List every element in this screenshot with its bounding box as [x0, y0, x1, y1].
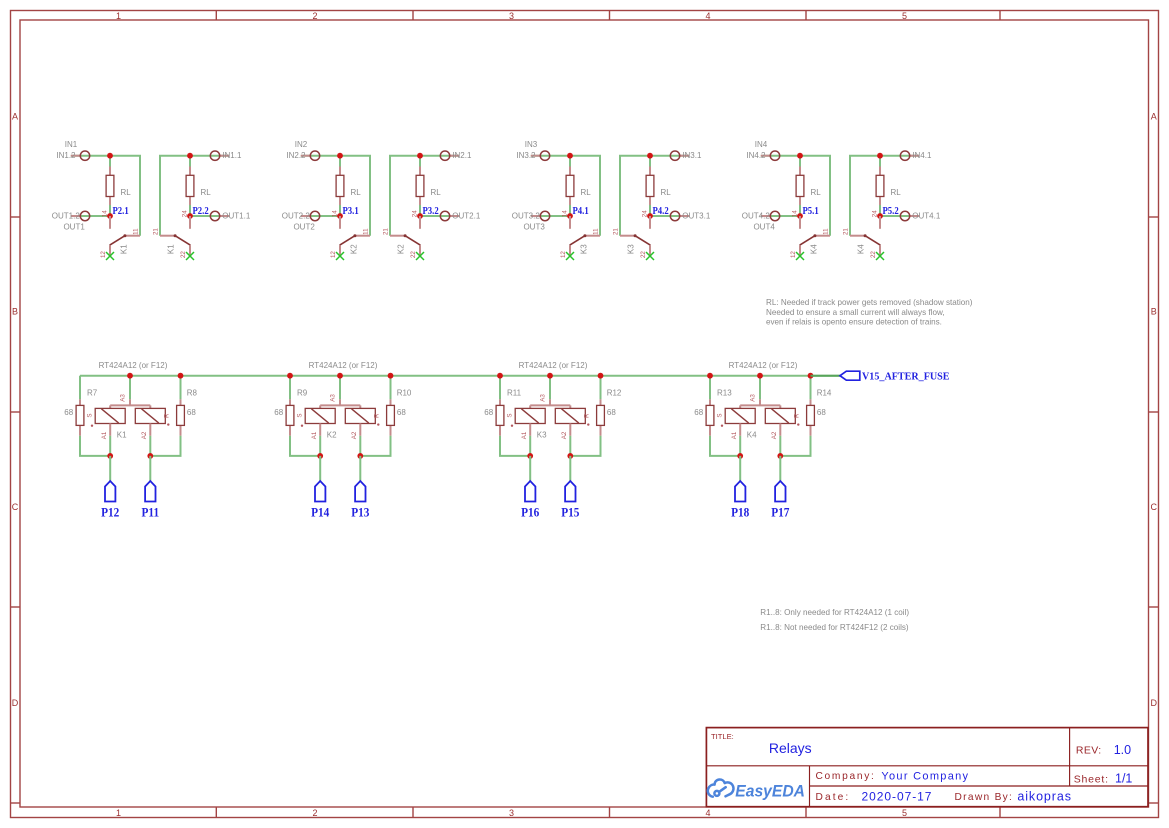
svg-text:R14: R14 — [817, 389, 832, 398]
svg-text:A3: A3 — [540, 394, 547, 402]
connector P4.1 pin 2 (circle OUT3.2) — [531, 215, 541, 217]
svg-text:OUT2.2: OUT2.2 — [282, 212, 311, 221]
relay coil K2 — [339, 399, 341, 405]
svg-text:RL: RL — [581, 188, 592, 197]
svg-text:P3.1: P3.1 — [343, 205, 359, 217]
svg-text:24: 24 — [871, 210, 878, 217]
svg-text:R: R — [374, 413, 381, 418]
wire R8 to junction A2 — [150, 436, 180, 456]
resistor R8 — [180, 399, 182, 405]
junction OUT2.1 — [417, 213, 423, 219]
svg-text:OUT1: OUT1 — [63, 222, 85, 231]
junction bus at R8 — [178, 373, 184, 379]
svg-text:1/1: 1/1 — [1115, 772, 1132, 786]
junction IN3.1 — [647, 153, 653, 159]
resistor RL (group 4b) — [879, 167, 881, 176]
svg-text:K2: K2 — [349, 244, 358, 254]
svg-text:12: 12 — [790, 251, 797, 258]
wire OUT3 horizontal (pin P4.2.2 to junction) — [650, 215, 689, 217]
wire bus to net flag V15_AFTER_FUSE — [811, 375, 841, 377]
svg-text:RL: RL — [431, 188, 442, 197]
wire junction to port P16 — [529, 456, 531, 481]
svg-text:K4: K4 — [857, 244, 866, 254]
wire IN3 to relay contact rail — [570, 156, 600, 236]
wire resistor RL bottom segment — [339, 205, 341, 216]
junction OUT4.1 — [877, 213, 883, 219]
connector P3.1 pin 1 (circle IN2.2) — [301, 155, 311, 157]
relay contact K2 pin 24 stub — [419, 216, 421, 229]
relay contact K4 pin 24 stub — [879, 216, 881, 229]
port flag P11 — [145, 481, 155, 502]
svg-text:Needed to ensure a small curre: Needed to ensure a small current will al… — [766, 308, 945, 317]
junction P15 A2 — [569, 436, 571, 456]
no-connect X on K4 pin 22 — [876, 252, 884, 260]
svg-text:2: 2 — [312, 808, 317, 818]
junction P12 A1 — [109, 436, 111, 456]
svg-text:C: C — [1151, 502, 1158, 512]
svg-text:A: A — [1151, 112, 1157, 122]
connector P2.2 pin 1 (circle IN1.1) — [220, 155, 230, 157]
port flag P13 — [355, 481, 365, 502]
no-connect X on K1 pin 22 — [186, 252, 194, 260]
svg-text:RL: RL — [811, 188, 822, 197]
svg-text:21: 21 — [153, 228, 160, 235]
svg-text:11: 11 — [133, 228, 140, 235]
relay coil K1 — [129, 399, 131, 405]
wire junction to port P13 — [359, 456, 361, 481]
wire OUT4 horizontal (pin P5.2.2 to junction) — [880, 215, 919, 217]
wire junction to port P12 — [109, 456, 111, 481]
svg-text:68: 68 — [607, 408, 616, 417]
junction bus at coil K1 stem — [127, 373, 133, 379]
no-connect X on K3 pin 12 — [566, 252, 574, 260]
svg-text:D: D — [12, 698, 19, 708]
relay contact K4 (right) — [850, 235, 865, 237]
svg-text:A1: A1 — [101, 431, 108, 439]
svg-text:Date:: Date: — [816, 792, 851, 803]
svg-text:OUT4.2: OUT4.2 — [742, 212, 771, 221]
wire right rail to resistor R12 — [600, 376, 602, 400]
wire IN4 horizontal (pin P5.1.1 to junction) — [761, 155, 800, 157]
wire IN2 horizontal (pin P3.1.1 to junction) — [301, 155, 340, 157]
svg-text:IN1: IN1 — [65, 140, 78, 149]
resistor RL (group 3b) — [649, 167, 651, 176]
wire IN1 to relay contact rail — [160, 156, 190, 236]
resistor R10 — [390, 399, 392, 405]
svg-text:A3: A3 — [330, 394, 337, 402]
wire bus to relay coil K4 pin A3 — [759, 376, 761, 400]
svg-text:K4: K4 — [809, 244, 818, 254]
no-connect X on K4 pin 12 — [796, 252, 804, 260]
svg-text:RT424A12 (or F12): RT424A12 (or F12) — [729, 361, 798, 370]
junction OUT3.2 — [567, 213, 573, 219]
svg-text:1: 1 — [116, 11, 121, 21]
relay contact K4 pin 14 stub — [799, 216, 801, 229]
no-connect X on K1 pin 12 — [106, 252, 114, 260]
wire R13 to junction A1 — [710, 436, 740, 456]
svg-text:K1: K1 — [119, 244, 128, 254]
svg-text:R9: R9 — [297, 389, 308, 398]
svg-text:24: 24 — [181, 210, 188, 217]
wire junction to port P11 — [149, 456, 151, 481]
svg-text:22: 22 — [870, 251, 877, 258]
EasyEDA logo cloud — [708, 779, 734, 796]
svg-text:K1: K1 — [167, 244, 176, 254]
connector P5.1 pin 2 (circle OUT4.2) — [761, 215, 771, 217]
svg-text:A2: A2 — [141, 431, 148, 439]
wire resistor RL top segment — [189, 156, 191, 167]
net flag V15_AFTER_FUSE — [840, 371, 860, 380]
wire IN1 to relay contact rail — [110, 156, 140, 236]
junction OUT1.2 — [107, 213, 113, 219]
wire OUT1 horizontal (pin P2.1.2 to junction) — [71, 215, 110, 217]
junction bus at coil K3 stem — [547, 373, 553, 379]
wire IN1 horizontal (pin P2.2.1 to junction) — [190, 155, 229, 157]
svg-text:OUT1.1: OUT1.1 — [222, 212, 251, 221]
svg-text:R13: R13 — [717, 389, 732, 398]
svg-text:68: 68 — [694, 408, 703, 417]
wire resistor RL top segment — [339, 156, 341, 167]
wire R11 to junction A1 — [500, 436, 530, 456]
svg-text:RL: RL — [351, 188, 362, 197]
svg-text:OUT4: OUT4 — [753, 222, 775, 231]
wire OUT4 horizontal (pin P5.1.2 to junction) — [761, 215, 800, 217]
svg-text:14: 14 — [791, 210, 798, 217]
wire IN2 to relay contact rail — [390, 156, 420, 236]
svg-text:12: 12 — [100, 251, 107, 258]
wire left rail to resistor R9 — [289, 376, 291, 400]
wire resistor RL top segment — [649, 156, 651, 167]
svg-text:even if relais is opento ensur: even if relais is opento ensure detectio… — [766, 317, 942, 326]
relay contact K2 (right) — [390, 235, 405, 237]
svg-text:OUT3.2: OUT3.2 — [512, 212, 541, 221]
wire IN4 to relay contact rail — [850, 156, 880, 236]
svg-text:12: 12 — [560, 251, 567, 258]
svg-text:4: 4 — [705, 11, 710, 21]
connector P3.2 pin 2 (circle OUT2.1) — [450, 215, 460, 217]
resistor RL (group 4a) — [799, 167, 801, 176]
wire left rail to resistor R7 — [79, 376, 81, 400]
svg-text:22: 22 — [410, 251, 417, 258]
svg-text:21: 21 — [843, 228, 850, 235]
svg-text:K1: K1 — [117, 430, 127, 439]
svg-text:21: 21 — [383, 228, 390, 235]
svg-text:K3: K3 — [627, 244, 636, 254]
svg-text:2020-07-17: 2020-07-17 — [862, 789, 933, 803]
svg-text:R: R — [584, 413, 591, 418]
no-connect X on K3 pin 22 — [646, 252, 654, 260]
wire R14 to junction A2 — [780, 436, 810, 456]
wire IN2 horizontal (pin P3.2.1 to junction) — [420, 155, 459, 157]
wire IN3 to relay contact rail — [620, 156, 650, 236]
resistor R7 — [79, 399, 81, 405]
svg-text:P5.1: P5.1 — [803, 205, 819, 217]
wire OUT3 horizontal (pin P4.1.2 to junction) — [531, 215, 570, 217]
svg-text:R8: R8 — [187, 389, 198, 398]
relay coil K4 — [759, 399, 761, 405]
svg-text:P4.2: P4.2 — [653, 205, 669, 217]
wire V15_AFTER_FUSE bus — [80, 375, 840, 377]
svg-text:RT424A12 (or F12): RT424A12 (or F12) — [309, 361, 378, 370]
junction P18 A1 — [739, 436, 741, 456]
svg-text:A1: A1 — [521, 431, 528, 439]
svg-text:IN4: IN4 — [755, 140, 768, 149]
svg-text:IN2: IN2 — [295, 140, 308, 149]
wire resistor RL top segment — [109, 156, 111, 167]
wire R9 to junction A1 — [290, 436, 320, 456]
svg-text:P3.2: P3.2 — [423, 205, 439, 217]
svg-text:A: A — [12, 112, 18, 122]
svg-text:68: 68 — [484, 408, 493, 417]
port flag P17 — [775, 481, 785, 502]
resistor RL (group 2a) — [339, 167, 341, 176]
wire junction to port P15 — [569, 456, 571, 481]
svg-text:P13: P13 — [351, 505, 369, 520]
svg-text:5: 5 — [902, 808, 907, 818]
wire R12 to junction A2 — [570, 436, 600, 456]
connector P5.1 pin 1 (circle IN4.2) — [761, 155, 771, 157]
wire IN3 horizontal (pin P4.2.1 to junction) — [650, 155, 689, 157]
junction bus at R12 — [598, 373, 604, 379]
wire bus to relay coil K2 pin A3 — [339, 376, 341, 400]
svg-text:22: 22 — [640, 251, 647, 258]
junction bus at R13 — [707, 373, 713, 379]
title block — [706, 728, 1148, 807]
junction IN1.1 — [187, 153, 193, 159]
no-connect X on K2 pin 22 — [416, 252, 424, 260]
junction P14 A1 — [319, 436, 321, 456]
svg-text:IN4.1: IN4.1 — [912, 151, 932, 160]
wire left rail to resistor R13 — [709, 376, 711, 400]
note: R1..8 explanation — [760, 608, 909, 632]
svg-text:Your Company: Your Company — [881, 770, 969, 782]
svg-text:P11: P11 — [142, 505, 160, 520]
junction OUT4.2 — [797, 213, 803, 219]
svg-text:K4: K4 — [747, 430, 757, 439]
relay coil K3 — [549, 399, 551, 405]
wire junction to port P17 — [779, 456, 781, 481]
svg-text:1: 1 — [116, 808, 121, 818]
svg-text:V15_AFTER_FUSE: V15_AFTER_FUSE — [862, 371, 950, 382]
svg-text:D: D — [1151, 698, 1158, 708]
svg-text:68: 68 — [817, 408, 826, 417]
junction IN4.1 — [877, 153, 883, 159]
resistor RL (group 1a) — [109, 167, 111, 176]
connector P2.2 pin 2 (circle OUT1.1) — [220, 215, 230, 217]
svg-text:R1..8: Only needed for RT424A1: R1..8: Only needed for RT424A12 (1 coil) — [760, 608, 909, 617]
connector P4.2 pin 2 (circle OUT3.1) — [680, 215, 690, 217]
svg-text:P16: P16 — [521, 505, 539, 520]
svg-text:5: 5 — [902, 11, 907, 21]
svg-text:1.0: 1.0 — [1114, 743, 1131, 757]
svg-text:2: 2 — [312, 11, 317, 21]
wire junction to port P14 — [319, 456, 321, 481]
wire resistor RL top segment — [879, 156, 881, 167]
svg-text:C: C — [12, 502, 19, 512]
relay contact K2 pin 14 stub — [339, 216, 341, 229]
wire junction to port P18 — [739, 456, 741, 481]
svg-text:IN3.2: IN3.2 — [516, 151, 536, 160]
relay contact K4 (left) — [815, 235, 830, 237]
svg-text:14: 14 — [561, 210, 568, 217]
junction bus at R11 — [497, 373, 503, 379]
svg-text:K2: K2 — [397, 244, 406, 254]
svg-text:12: 12 — [330, 251, 337, 258]
wire left rail to resistor R11 — [499, 376, 501, 400]
svg-text:REV:: REV: — [1076, 745, 1102, 757]
svg-text:A3: A3 — [120, 394, 127, 402]
svg-text:K3: K3 — [537, 430, 547, 439]
svg-text:68: 68 — [274, 408, 283, 417]
wire resistor RL bottom segment — [879, 205, 881, 216]
svg-text:3: 3 — [509, 808, 514, 818]
wire resistor RL bottom segment — [569, 205, 571, 216]
connector P4.1 pin 1 (circle IN3.2) — [531, 155, 541, 157]
svg-text:4: 4 — [705, 808, 710, 818]
svg-text:22: 22 — [180, 251, 187, 258]
connector P2.1 pin 1 (circle IN1.2) — [71, 155, 81, 157]
svg-text:Company:: Company: — [816, 771, 876, 782]
svg-text:P2.2: P2.2 — [193, 205, 209, 217]
svg-text:OUT2: OUT2 — [293, 222, 315, 231]
svg-text:IN4.2: IN4.2 — [746, 151, 766, 160]
junction bus at R14 — [808, 373, 814, 379]
svg-text:P14: P14 — [311, 505, 329, 520]
svg-text:P5.2: P5.2 — [883, 205, 899, 217]
wire OUT1 horizontal (pin P2.2.2 to junction) — [190, 215, 229, 217]
svg-text:OUT4.1: OUT4.1 — [912, 212, 941, 221]
junction IN3.2 — [567, 153, 573, 159]
svg-text:IN2.2: IN2.2 — [286, 151, 306, 160]
svg-text:24: 24 — [641, 210, 648, 217]
junction bus at coil K4 stem — [757, 373, 763, 379]
svg-text:11: 11 — [593, 228, 600, 235]
svg-text:IN3: IN3 — [525, 140, 538, 149]
wire resistor RL bottom segment — [189, 205, 191, 216]
junction P17 A2 — [779, 436, 781, 456]
wire right rail to resistor R14 — [810, 376, 812, 400]
relay contact K1 (left) — [125, 235, 140, 237]
svg-text:R: R — [794, 413, 801, 418]
junction P16 A1 — [529, 436, 531, 456]
svg-text:RL: RL — [201, 188, 212, 197]
relay contact K3 pin 24 stub — [649, 216, 651, 229]
svg-text:P12: P12 — [101, 505, 119, 520]
wire IN2 to relay contact rail — [340, 156, 370, 236]
svg-text:OUT3.1: OUT3.1 — [682, 212, 711, 221]
svg-text:Sheet:: Sheet: — [1074, 773, 1109, 785]
wire resistor RL bottom segment — [109, 205, 111, 216]
junction IN2.1 — [417, 153, 423, 159]
wire right rail to resistor R10 — [390, 376, 392, 400]
svg-text:S: S — [717, 413, 724, 417]
svg-text:P17: P17 — [771, 505, 789, 520]
svg-text:R12: R12 — [607, 389, 622, 398]
note: RL explanation — [766, 298, 973, 326]
svg-text:IN1.1: IN1.1 — [222, 151, 242, 160]
svg-text:14: 14 — [101, 210, 108, 217]
svg-text:A2: A2 — [771, 431, 778, 439]
resistor RL (group 3a) — [569, 167, 571, 176]
svg-text:EasyEDA: EasyEDA — [735, 782, 805, 800]
wire R7 to junction A1 — [80, 436, 110, 456]
junction OUT1.1 — [187, 213, 193, 219]
junction bus at coil K2 stem — [337, 373, 343, 379]
relay contact K1 (right) — [160, 235, 175, 237]
svg-text:RL: RL — [121, 188, 132, 197]
relay contact K2 (left) — [355, 235, 370, 237]
wire OUT2 horizontal (pin P3.2.2 to junction) — [420, 215, 459, 217]
svg-text:68: 68 — [64, 408, 73, 417]
wire IN1 horizontal (pin P2.1.1 to junction) — [71, 155, 110, 157]
svg-text:IN1.2: IN1.2 — [56, 151, 76, 160]
svg-text:21: 21 — [613, 228, 620, 235]
wire resistor RL bottom segment — [799, 205, 801, 216]
resistor R13 — [709, 399, 711, 405]
relay contact K1 pin 14 stub — [109, 216, 111, 229]
wire resistor RL top segment — [799, 156, 801, 167]
svg-text:IN3.1: IN3.1 — [682, 151, 702, 160]
wire bus to relay coil K1 pin A3 — [129, 376, 131, 400]
svg-text:K3: K3 — [579, 244, 588, 254]
port flag P18 — [735, 481, 745, 502]
resistor RL (group 2b) — [419, 167, 421, 176]
junction OUT3.1 — [647, 213, 653, 219]
wire bus to relay coil K3 pin A3 — [549, 376, 551, 400]
resistor R12 — [600, 399, 602, 405]
svg-text:K2: K2 — [327, 430, 337, 439]
junction bus at R9 — [287, 373, 293, 379]
wire resistor RL top segment — [569, 156, 571, 167]
svg-text:14: 14 — [331, 210, 338, 217]
svg-text:11: 11 — [363, 228, 370, 235]
relay contact K3 pin 14 stub — [569, 216, 571, 229]
port flag P12 — [105, 481, 115, 502]
svg-text:RT424A12 (or F12): RT424A12 (or F12) — [519, 361, 588, 370]
wire IN3 horizontal (pin P4.1.1 to junction) — [531, 155, 570, 157]
svg-text:R: R — [164, 413, 171, 418]
wire IN4 to relay contact rail — [800, 156, 830, 236]
connector P2.1 pin 2 (circle OUT1.2) — [71, 215, 81, 217]
resistor R9 — [289, 399, 291, 405]
svg-text:OUT3: OUT3 — [523, 222, 545, 231]
svg-text:R11: R11 — [507, 389, 522, 398]
svg-text:68: 68 — [397, 408, 406, 417]
junction IN2.2 — [337, 153, 343, 159]
port flag P15 — [565, 481, 575, 502]
junction bus at R10 — [388, 373, 394, 379]
connector P3.2 pin 1 (circle IN2.1) — [450, 155, 460, 157]
wire resistor RL bottom segment — [649, 205, 651, 216]
svg-text:P4.1: P4.1 — [573, 205, 589, 217]
svg-text:S: S — [297, 413, 304, 417]
relay contact K1 pin 24 stub — [189, 216, 191, 229]
svg-text:68: 68 — [187, 408, 196, 417]
svg-text:OUT1.2: OUT1.2 — [52, 212, 81, 221]
svg-text:RL: RL — [891, 188, 902, 197]
port flag P14 — [315, 481, 325, 502]
svg-text:A2: A2 — [561, 431, 568, 439]
resistor RL (group 1b) — [189, 167, 191, 176]
wire OUT2 horizontal (pin P3.1.2 to junction) — [301, 215, 340, 217]
svg-text:R10: R10 — [397, 389, 412, 398]
svg-text:A2: A2 — [351, 431, 358, 439]
no-connect X on K2 pin 12 — [336, 252, 344, 260]
junction P13 A2 — [359, 436, 361, 456]
svg-text:11: 11 — [823, 228, 830, 235]
connector P5.2 pin 2 (circle OUT4.1) — [910, 215, 920, 217]
svg-text:P18: P18 — [731, 505, 749, 520]
